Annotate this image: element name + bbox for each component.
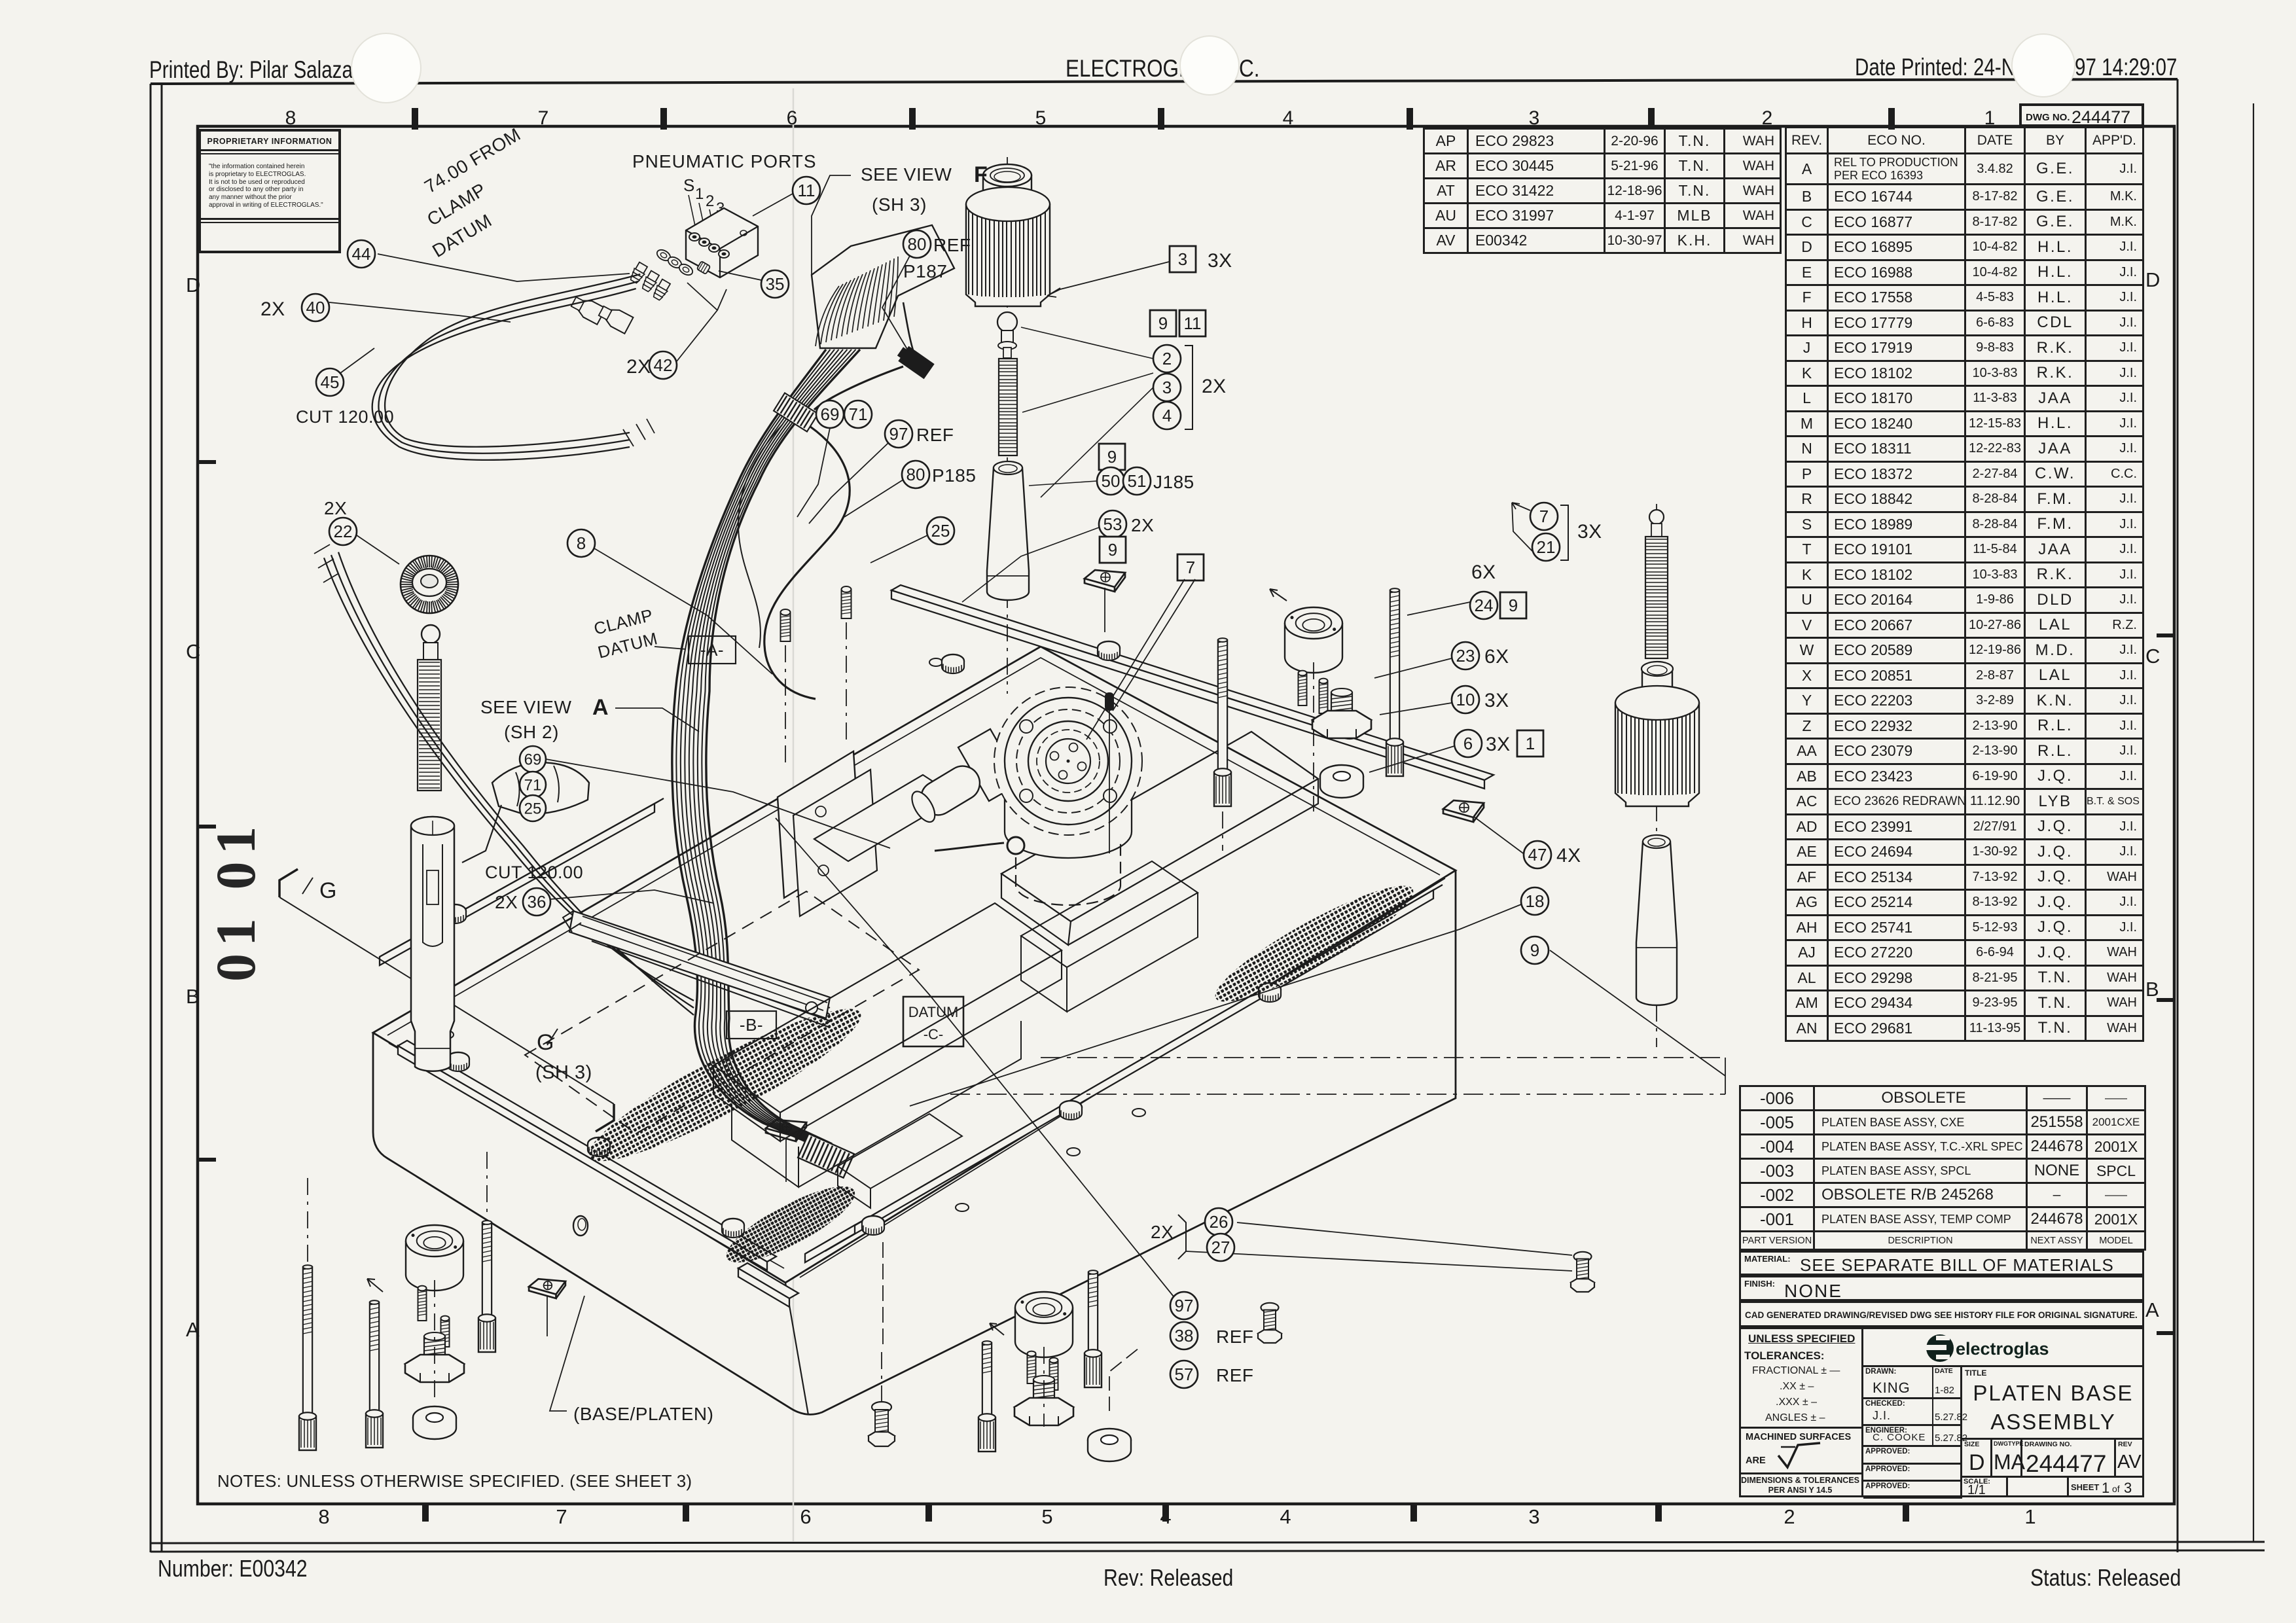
svg-text:P185: P185	[932, 465, 976, 486]
svg-text:G: G	[319, 878, 337, 903]
svg-text:2X: 2X	[1202, 376, 1227, 397]
svg-text:80: 80	[908, 234, 927, 254]
svg-text:2: 2	[706, 192, 715, 210]
svg-text:3: 3	[1162, 378, 1172, 397]
svg-text:J185: J185	[1153, 472, 1194, 492]
svg-text:4X: 4X	[1556, 845, 1581, 866]
svg-text:(SH 3): (SH 3)	[872, 194, 927, 215]
svg-text:3: 3	[1178, 249, 1187, 269]
svg-text:57: 57	[1175, 1364, 1194, 1384]
svg-text:7: 7	[1186, 558, 1195, 577]
svg-text:50: 50	[1102, 471, 1121, 491]
svg-text:10: 10	[1456, 690, 1475, 709]
svg-text:69: 69	[821, 404, 840, 424]
svg-text:42: 42	[654, 355, 673, 375]
svg-text:2X: 2X	[324, 498, 347, 518]
svg-text:-B-: -B-	[740, 1015, 763, 1035]
svg-text:A: A	[592, 695, 609, 720]
svg-text:S: S	[683, 175, 695, 195]
svg-text:NOTES: UNLESS OTHERWISE SPE: NOTES: UNLESS OTHERWISE SPECIFIED. (SEE …	[217, 1471, 692, 1491]
svg-text:71: 71	[524, 776, 542, 794]
svg-text:80: 80	[906, 465, 925, 484]
svg-text:35: 35	[766, 274, 785, 294]
svg-text:9: 9	[1107, 447, 1117, 467]
svg-text:69: 69	[524, 751, 542, 768]
svg-text:9: 9	[1509, 596, 1518, 615]
svg-text:(SH 3): (SH 3)	[535, 1062, 592, 1083]
svg-text:25: 25	[524, 800, 542, 817]
svg-text:23: 23	[1456, 646, 1475, 666]
svg-text:9: 9	[1108, 540, 1117, 560]
svg-text:9: 9	[1530, 940, 1539, 960]
svg-text:SEE VIEW: SEE VIEW	[861, 164, 952, 185]
svg-text:CUT 120.00: CUT 120.00	[485, 863, 583, 882]
svg-text:(BASE/PLATEN): (BASE/PLATEN)	[573, 1404, 713, 1424]
svg-text:27: 27	[1211, 1238, 1230, 1257]
svg-text:18: 18	[1526, 891, 1545, 911]
svg-text:3X: 3X	[1208, 250, 1232, 272]
svg-text:2X: 2X	[495, 892, 518, 912]
svg-text:1: 1	[1526, 734, 1535, 753]
svg-text:SEE VIEW: SEE VIEW	[480, 697, 571, 717]
svg-text:P187: P187	[903, 261, 947, 281]
svg-text:44: 44	[352, 244, 371, 264]
svg-text:2: 2	[1162, 349, 1172, 368]
svg-text:6X: 6X	[1471, 562, 1496, 583]
svg-text:21: 21	[1537, 537, 1556, 557]
svg-text:36: 36	[528, 892, 547, 912]
svg-text:45: 45	[321, 372, 340, 392]
svg-text:3X: 3X	[1577, 521, 1602, 543]
svg-text:8: 8	[577, 533, 586, 553]
svg-text:47: 47	[1528, 845, 1547, 865]
svg-text:38: 38	[1175, 1326, 1194, 1346]
svg-text:22: 22	[334, 522, 353, 541]
svg-text:25: 25	[931, 521, 950, 541]
svg-text:2X: 2X	[626, 356, 651, 378]
svg-text:4: 4	[1162, 406, 1172, 425]
svg-text:F: F	[974, 162, 988, 187]
svg-text:CUT 120.00: CUT 120.00	[296, 407, 394, 427]
svg-text:REF: REF	[933, 235, 971, 255]
svg-text:6: 6	[1463, 734, 1473, 753]
svg-text:71: 71	[849, 404, 868, 424]
svg-text:11: 11	[1184, 313, 1202, 333]
svg-text:6X: 6X	[1484, 646, 1509, 668]
svg-text:3X: 3X	[1486, 734, 1511, 755]
svg-text:26: 26	[1210, 1212, 1229, 1232]
svg-text:3X: 3X	[1484, 690, 1509, 711]
svg-text:2X: 2X	[1151, 1222, 1174, 1242]
svg-text:2X: 2X	[1131, 515, 1154, 535]
svg-text:electroglas: electroglas	[1956, 1339, 2049, 1359]
svg-text:DATUM: DATUM	[908, 1004, 959, 1020]
svg-text:REF: REF	[1216, 1365, 1254, 1385]
svg-text:REF: REF	[1216, 1327, 1254, 1347]
svg-text:9: 9	[1158, 313, 1168, 333]
svg-text:51: 51	[1128, 471, 1147, 491]
svg-text:40: 40	[306, 298, 325, 317]
svg-text:2X: 2X	[260, 298, 285, 320]
svg-text:97: 97	[1175, 1296, 1194, 1315]
svg-text:11: 11	[798, 181, 816, 200]
svg-text:-A-: -A-	[700, 640, 724, 660]
svg-text:(SH 2): (SH 2)	[504, 722, 559, 742]
svg-text:97: 97	[889, 424, 908, 444]
svg-text:53: 53	[1103, 514, 1122, 534]
svg-text:PNEUMATIC PORTS: PNEUMATIC PORTS	[632, 151, 817, 171]
svg-text:REF: REF	[916, 425, 954, 445]
svg-text:7: 7	[1539, 507, 1549, 526]
svg-text:1: 1	[695, 185, 704, 203]
svg-text:24: 24	[1475, 596, 1494, 615]
